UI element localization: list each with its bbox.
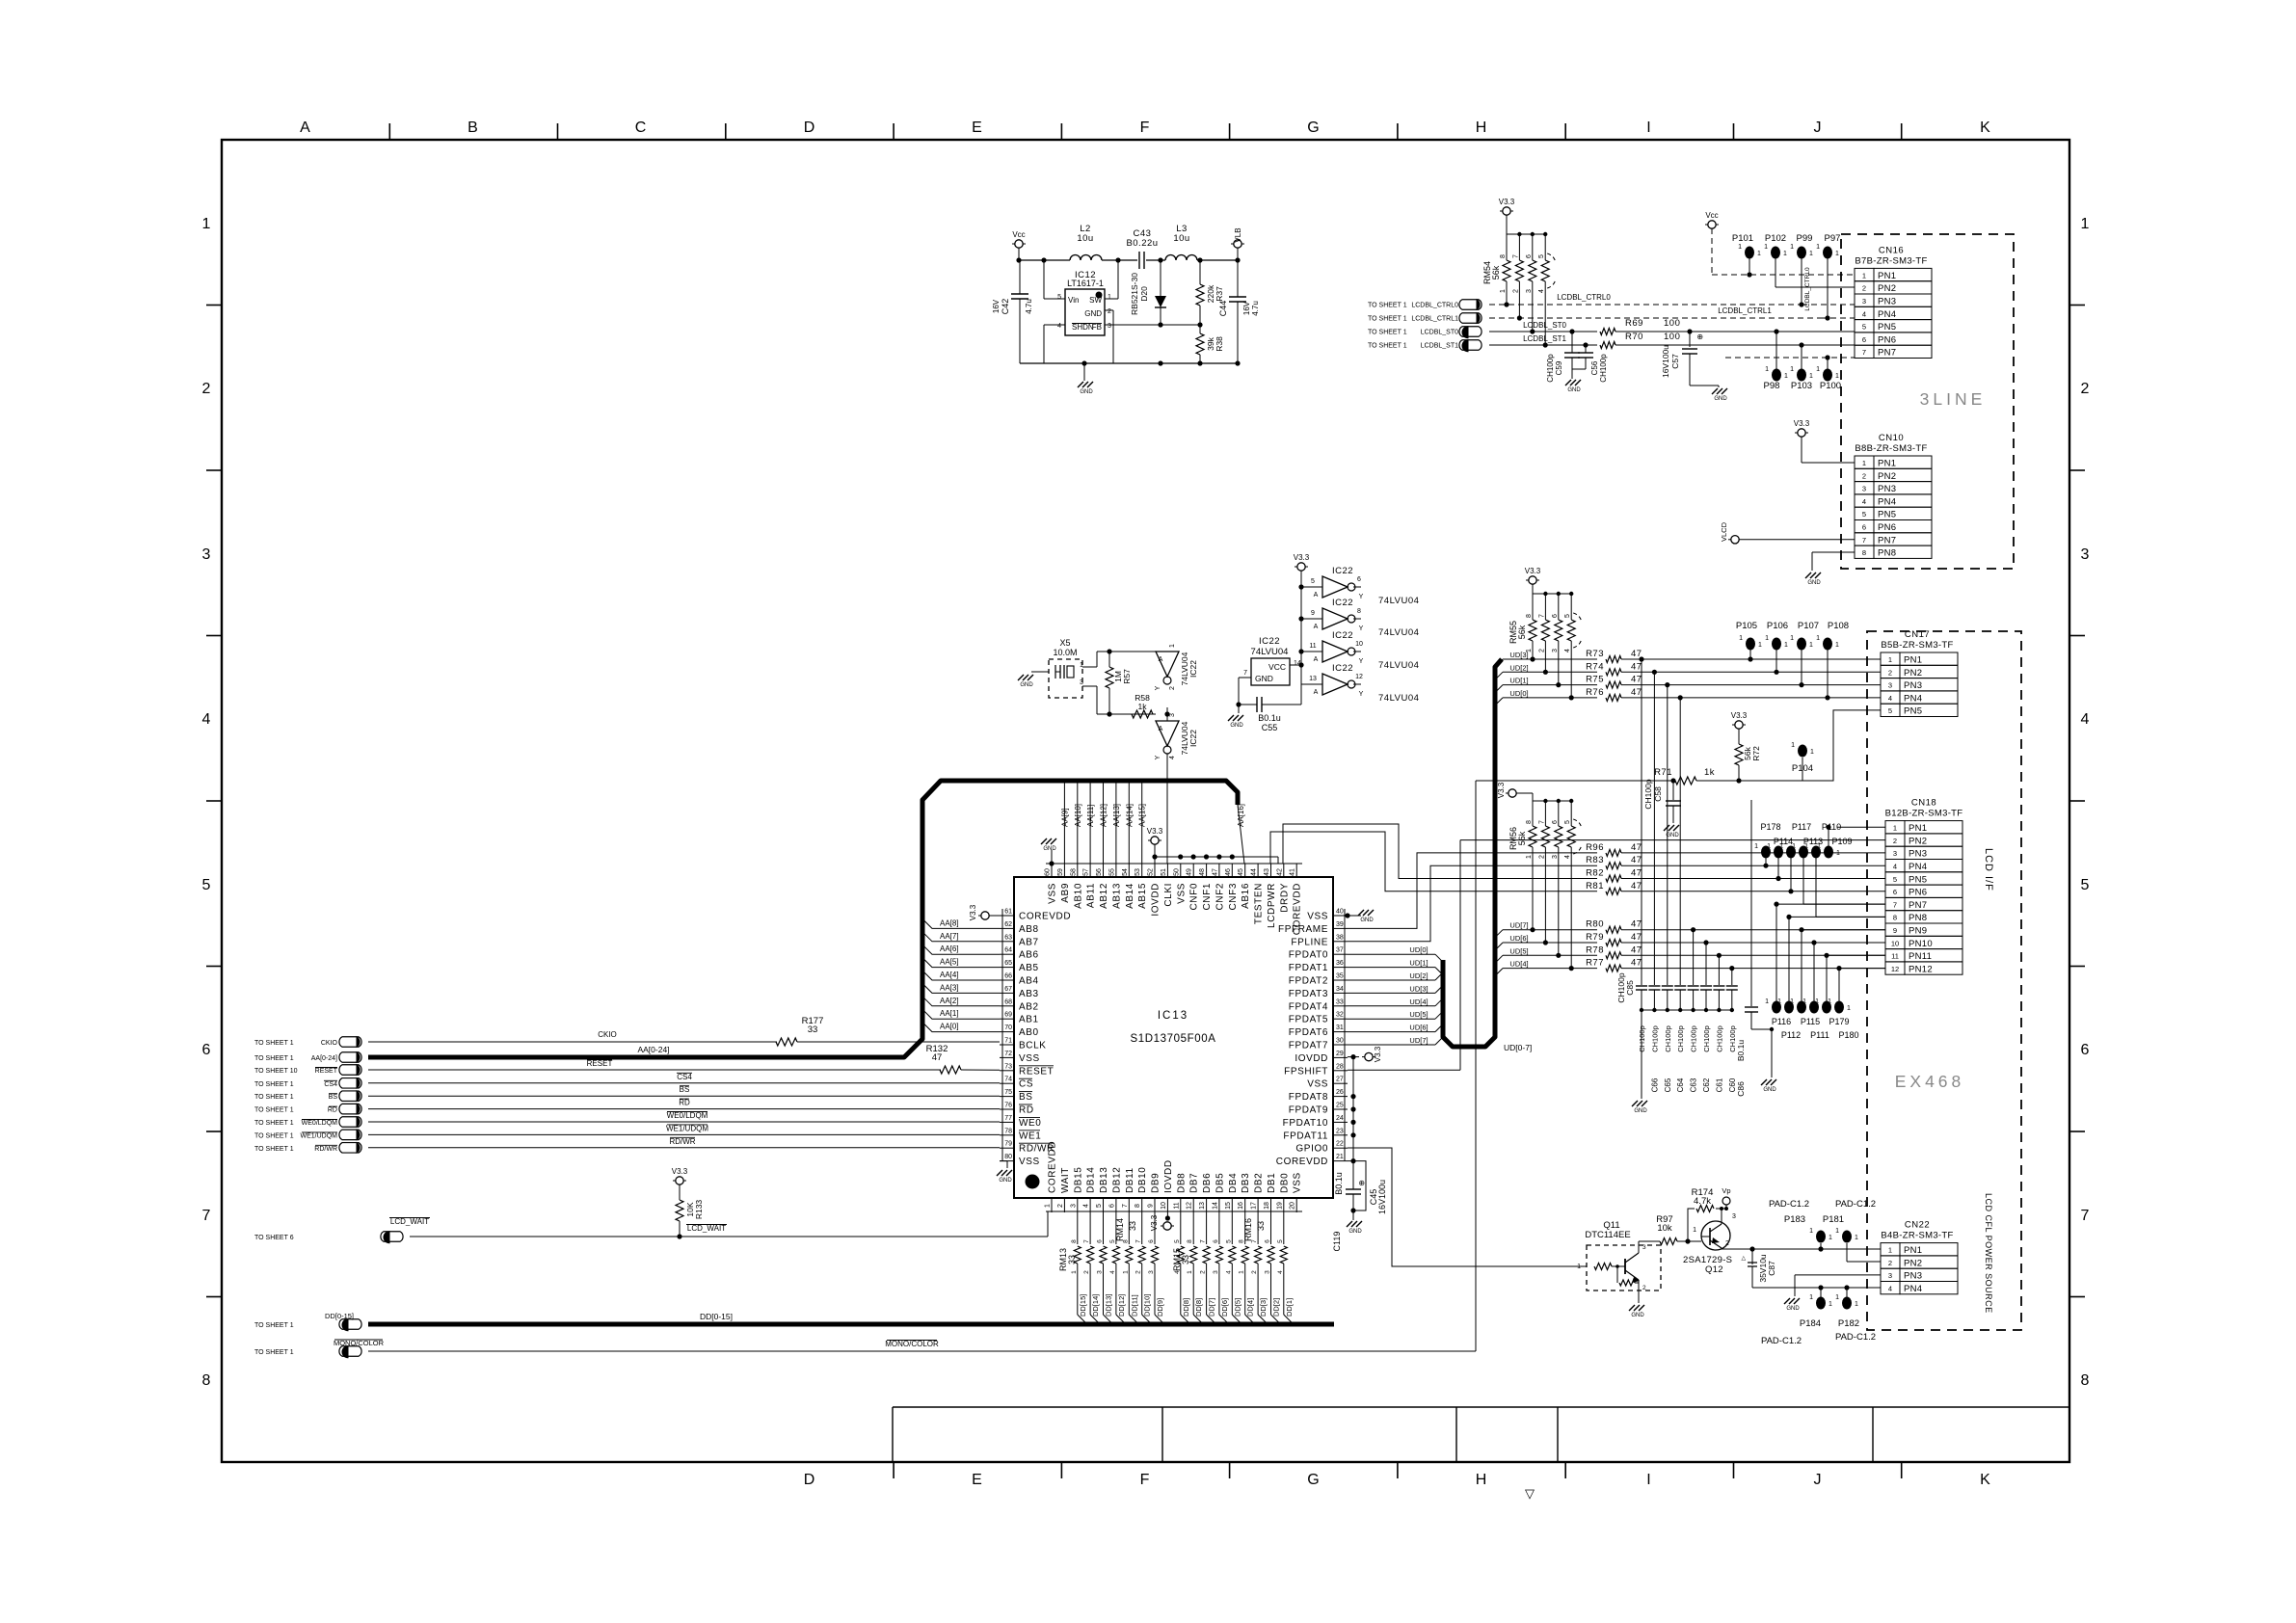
svg-text:Y: Y [1155, 755, 1161, 759]
svg-text:RB521S-30: RB521S-30 [1130, 273, 1139, 315]
svg-text:30: 30 [1336, 1038, 1344, 1045]
svg-text:GND: GND [1084, 309, 1102, 318]
svg-text:2: 2 [1083, 1270, 1090, 1274]
resistor R58 1k [1132, 693, 1153, 718]
svg-text:△: △ [1741, 1256, 1746, 1262]
svg-text:4: 4 [1083, 1204, 1090, 1208]
svg-text:R77: R77 [1586, 958, 1604, 969]
svg-text:V3.3: V3.3 [1794, 419, 1810, 428]
svg-text:1: 1 [1757, 251, 1761, 257]
border frame [222, 140, 2069, 1462]
svg-text:GND: GND [1634, 1108, 1647, 1114]
svg-text:3: 3 [1148, 1270, 1155, 1274]
svg-text:PN4: PN4 [1909, 862, 1927, 872]
svg-text:TO SHEET 1: TO SHEET 1 [254, 1146, 294, 1153]
svg-text:1: 1 [1855, 1235, 1858, 1241]
resistor R174 4.7k [1688, 1187, 1726, 1241]
svg-text:100: 100 [1664, 332, 1680, 342]
svg-text:P111: P111 [1810, 1030, 1829, 1040]
svg-text:4.7u: 4.7u [1251, 301, 1260, 316]
svg-text:CN18: CN18 [1911, 798, 1936, 809]
svg-text:3: 3 [1526, 289, 1533, 293]
svg-text:39: 39 [1336, 921, 1344, 928]
svg-text:LCDBL_ST0: LCDBL_ST0 [1523, 321, 1566, 330]
bus UD taps lower rows [1495, 921, 1597, 976]
svg-text:WE0/LDQM: WE0/LDQM [302, 1120, 338, 1127]
terminal VLB [1231, 227, 1244, 260]
pads P98 P103 P100 [1725, 329, 1855, 391]
svg-text:7: 7 [1200, 1239, 1207, 1243]
svg-text:VSS: VSS [1048, 883, 1058, 904]
svg-text:1: 1 [1835, 642, 1839, 649]
svg-text:1: 1 [1080, 662, 1083, 669]
svg-text:FPDAT8: FPDAT8 [1289, 1092, 1328, 1103]
svg-text:74LVU04: 74LVU04 [1251, 647, 1289, 657]
svg-text:TO SHEET 1: TO SHEET 1 [1368, 343, 1407, 350]
svg-text:A: A [1314, 592, 1319, 599]
svg-text:4.7u: 4.7u [1025, 299, 1033, 314]
svg-text:33: 33 [1128, 1221, 1137, 1231]
svg-text:3: 3 [1642, 1244, 1646, 1251]
svg-text:UD[4]: UD[4] [1509, 960, 1528, 969]
svg-text:5: 5 [1564, 820, 1571, 824]
svg-text:1: 1 [1777, 998, 1781, 1005]
ground C58 [1664, 825, 1680, 838]
svg-text:LCD_WAIT: LCD_WAIT [390, 1217, 429, 1226]
svg-text:GND: GND [1807, 580, 1821, 586]
wire LCDBL_CTRL0 [1489, 293, 1855, 305]
bus UD taps upper rows [1495, 651, 1597, 705]
svg-text:X5: X5 [1059, 638, 1070, 648]
svg-text:6: 6 [1213, 1239, 1219, 1243]
to-sheet flag RESET [254, 1059, 941, 1075]
svg-text:C65: C65 [1664, 1078, 1672, 1092]
svg-text:RM14: RM14 [1115, 1218, 1125, 1241]
svg-text:CNF1: CNF1 [1202, 883, 1213, 911]
svg-text:PN1: PN1 [1878, 271, 1896, 281]
svg-text:AB11: AB11 [1086, 883, 1097, 908]
svg-text:PN2: PN2 [1878, 471, 1896, 482]
svg-text:GPIO0: GPIO0 [1295, 1144, 1328, 1155]
svg-text:DD[12]: DD[12] [1117, 1294, 1126, 1317]
svg-text:CNF3: CNF3 [1228, 883, 1239, 911]
svg-text:54: 54 [1122, 868, 1129, 876]
svg-text:PN3: PN3 [1909, 849, 1927, 860]
svg-text:FB: FB [1092, 323, 1102, 332]
svg-text:1: 1 [1791, 742, 1795, 749]
label LCD I/F [1983, 848, 1994, 891]
svg-text:B7B-ZR-SM3-TF: B7B-ZR-SM3-TF [1855, 255, 1927, 266]
svg-text:DD[6]: DD[6] [1220, 1298, 1229, 1317]
svg-text:R78: R78 [1586, 945, 1604, 955]
svg-text:Vin: Vin [1068, 296, 1079, 305]
svg-text:TO SHEET 1: TO SHEET 1 [254, 1081, 294, 1088]
svg-text:TO SHEET 1: TO SHEET 1 [254, 1107, 294, 1114]
svg-text:IC22: IC22 [1332, 598, 1353, 608]
svg-text:78: 78 [1004, 1128, 1012, 1134]
svg-text:AB4: AB4 [1019, 976, 1039, 987]
svg-text:PN9: PN9 [1909, 926, 1927, 937]
svg-text:6: 6 [1893, 888, 1897, 896]
terminal V3.3 RM55 [1525, 567, 1541, 594]
svg-text:4: 4 [1277, 1270, 1284, 1274]
svg-text:UD[3]: UD[3] [1409, 984, 1428, 993]
svg-text:PN3: PN3 [1878, 484, 1896, 494]
svg-text:DB6: DB6 [1202, 1173, 1213, 1193]
IC22 power box VCC GND [1239, 636, 1301, 705]
svg-text:A: A [1314, 656, 1319, 663]
svg-text:22: 22 [1336, 1141, 1344, 1148]
svg-text:47: 47 [1631, 945, 1642, 955]
svg-text:IOVDD: IOVDD [1163, 1159, 1174, 1193]
inductor L3 [1165, 224, 1197, 260]
svg-text:V3.3: V3.3 [672, 1167, 688, 1176]
svg-text:P110: P110 [1822, 822, 1841, 832]
svg-text:1: 1 [1758, 642, 1762, 649]
svg-text:P181: P181 [1823, 1214, 1844, 1225]
svg-text:UD[2]: UD[2] [1509, 663, 1528, 672]
svg-text:15: 15 [1225, 1202, 1232, 1210]
svg-text:Vcc: Vcc [1012, 230, 1025, 239]
svg-text:1: 1 [1790, 998, 1794, 1005]
svg-text:PAD-C1.2: PAD-C1.2 [1835, 1332, 1876, 1343]
svg-text:UD[7]: UD[7] [1409, 1036, 1428, 1045]
connector CN10 B8B-ZR-SM3-TF [1855, 433, 1932, 559]
svg-text:7: 7 [1122, 1204, 1129, 1208]
svg-text:RESET: RESET [315, 1068, 338, 1075]
svg-text:9: 9 [1148, 1204, 1155, 1208]
svg-text:5: 5 [1888, 706, 1892, 715]
svg-text:1: 1 [1828, 998, 1831, 1005]
svg-text:Vcc: Vcc [1705, 211, 1718, 220]
svg-text:GND: GND [999, 1178, 1012, 1184]
svg-text:47: 47 [1631, 842, 1642, 853]
svg-text:2: 2 [1512, 289, 1519, 293]
svg-text:RM16: RM16 [1243, 1218, 1253, 1241]
svg-text:AB0: AB0 [1019, 1027, 1039, 1038]
svg-text:64: 64 [1004, 947, 1012, 954]
svg-text:FPDAT3: FPDAT3 [1289, 989, 1328, 999]
wire GPIO0 route [1348, 1148, 1587, 1266]
svg-text:PN5: PN5 [1878, 510, 1896, 520]
capacitor C42 [992, 260, 1033, 363]
svg-text:PN5: PN5 [1878, 322, 1896, 333]
svg-text:1: 1 [1187, 1270, 1193, 1274]
svg-text:AA[10]: AA[10] [1074, 804, 1082, 827]
svg-text:A: A [1159, 656, 1163, 663]
svg-text:60: 60 [1045, 868, 1052, 876]
capacitor C43 [1126, 228, 1158, 269]
svg-text:A: A [1159, 726, 1163, 732]
svg-text:CS4: CS4 [324, 1081, 337, 1088]
svg-text:5: 5 [1893, 875, 1897, 884]
svg-text:6: 6 [1097, 1239, 1104, 1243]
svg-text:DD[3]: DD[3] [1259, 1298, 1268, 1317]
svg-text:DD[9]: DD[9] [1156, 1298, 1164, 1317]
svg-text:7: 7 [1538, 614, 1545, 618]
svg-text:P116: P116 [1772, 1017, 1791, 1026]
svg-text:6: 6 [2081, 1042, 2090, 1058]
svg-text:12: 12 [1355, 674, 1363, 680]
bus AA taps to AB pins [922, 918, 1000, 1031]
svg-text:1: 1 [1804, 843, 1808, 850]
to-sheet flag RD/WR [254, 1137, 1000, 1153]
svg-text:P115: P115 [1801, 1017, 1820, 1026]
svg-text:5: 5 [202, 877, 211, 893]
inverter IC22 second [1155, 713, 1198, 864]
svg-text:77: 77 [1004, 1115, 1012, 1122]
svg-text:10: 10 [1355, 641, 1363, 648]
wire LCDBL_ST0 with R69 100 [1489, 318, 1855, 335]
svg-text:16V: 16V [992, 299, 1001, 313]
terminal V3.3 IC22 bank [1294, 553, 1310, 684]
svg-text:P107: P107 [1798, 621, 1819, 631]
svg-text:CN16: CN16 [1879, 245, 1904, 255]
svg-text:1: 1 [1835, 1228, 1839, 1235]
svg-text:5: 5 [1174, 1239, 1181, 1243]
svg-text:8: 8 [202, 1372, 211, 1389]
svg-text:B0.1u: B0.1u [1258, 713, 1281, 723]
label EX468 [1895, 1072, 1965, 1091]
svg-text:R81: R81 [1586, 881, 1604, 891]
svg-text:P101: P101 [1732, 233, 1753, 244]
inverter IC22 first [1155, 644, 1198, 721]
svg-text:CS: CS [1019, 1079, 1033, 1090]
svg-text:33: 33 [1256, 1221, 1266, 1231]
svg-text:25: 25 [1336, 1103, 1344, 1109]
svg-text:47: 47 [1631, 855, 1642, 865]
svg-text:4: 4 [1169, 756, 1176, 759]
svg-text:UD[7]: UD[7] [1509, 921, 1528, 930]
svg-text:8: 8 [1135, 1204, 1141, 1208]
svg-text:1: 1 [1790, 635, 1794, 642]
svg-text:11: 11 [1173, 1202, 1180, 1209]
svg-text:100: 100 [1664, 318, 1680, 329]
ground C119 [1347, 1216, 1363, 1235]
resistor R177 33 [776, 1016, 1000, 1046]
svg-text:C57: C57 [1670, 354, 1680, 369]
svg-text:CS4: CS4 [677, 1073, 692, 1081]
svg-text:COREVDD: COREVDD [1276, 1157, 1328, 1167]
svg-text:AA[0-24]: AA[0-24] [311, 1055, 337, 1062]
svg-text:WE1: WE1 [1019, 1131, 1041, 1141]
svg-text:LCDBL_CTRL0: LCDBL_CTRL0 [1411, 303, 1458, 309]
wire CN18 PN1 [1837, 826, 1885, 828]
IC13 bottom pins 1-20 [1045, 1141, 1303, 1212]
transistor Q12 2SA1729-S [1683, 1207, 1745, 1275]
svg-text:32: 32 [1336, 1012, 1344, 1019]
svg-text:F: F [1140, 120, 1151, 136]
svg-text:56: 56 [1096, 868, 1103, 876]
svg-text:1: 1 [1792, 843, 1796, 850]
svg-text:AA[0-24]: AA[0-24] [637, 1045, 669, 1054]
svg-text:AB6: AB6 [1019, 950, 1039, 961]
svg-text:5: 5 [1862, 323, 1866, 332]
svg-text:3: 3 [1213, 1270, 1219, 1274]
svg-text:GND: GND [1567, 387, 1581, 393]
svg-text:PN8: PN8 [1878, 548, 1896, 559]
capacitor C45 16V100u [1350, 1161, 1387, 1214]
svg-text:1: 1 [1893, 824, 1897, 833]
svg-text:EX468: EX468 [1895, 1072, 1965, 1091]
transistor Q11 DTC114EE [1577, 1220, 1661, 1291]
svg-text:UD[2]: UD[2] [1409, 971, 1428, 980]
svg-text:FPDAT5: FPDAT5 [1289, 1015, 1328, 1025]
capacitor C58 CH100p [1643, 778, 1681, 823]
capacitor C87 35V10u [1741, 1249, 1776, 1288]
svg-text:8: 8 [1526, 614, 1533, 618]
svg-text:RD/WR: RD/WR [314, 1146, 337, 1153]
pad P104 [1791, 742, 1814, 781]
svg-text:5: 5 [1096, 1204, 1103, 1208]
svg-text:47: 47 [932, 1052, 943, 1063]
svg-text:DD[11]: DD[11] [1130, 1294, 1138, 1317]
svg-text:2: 2 [1862, 471, 1866, 480]
svg-text:R57: R57 [1122, 669, 1132, 684]
svg-text:V3.3: V3.3 [1731, 711, 1748, 720]
svg-text:VLCD: VLCD [1720, 521, 1728, 542]
resistor network RM54 56k [1482, 232, 1555, 348]
svg-text:43: 43 [1264, 868, 1270, 876]
terminal V3.3 CN10 [1794, 419, 1855, 463]
svg-text:7: 7 [1135, 1239, 1142, 1243]
svg-text:VSS: VSS [1019, 1053, 1040, 1064]
svg-text:1: 1 [1693, 1227, 1696, 1234]
svg-text:B4B-ZR-SM3-TF: B4B-ZR-SM3-TF [1881, 1231, 1953, 1241]
svg-text:4: 4 [1538, 289, 1545, 293]
to-sheet flag DD[0-15] [254, 1312, 733, 1331]
wire DRDY route [1283, 824, 1597, 879]
svg-text:AB5: AB5 [1019, 963, 1039, 973]
svg-text:3: 3 [1169, 713, 1176, 717]
svg-text:46: 46 [1225, 868, 1232, 876]
svg-text:FPDAT7: FPDAT7 [1289, 1041, 1328, 1051]
svg-text:RD: RD [1019, 1105, 1034, 1116]
wire IOVDD rail down [1350, 1057, 1355, 1161]
svg-text:PN6: PN6 [1878, 334, 1896, 345]
bus UD[0-7] thick [1443, 659, 1532, 1052]
svg-text:6: 6 [1526, 254, 1533, 258]
svg-text:UD[1]: UD[1] [1509, 677, 1528, 685]
svg-text:CH100p: CH100p [1676, 1025, 1685, 1052]
svg-text:VSS: VSS [1307, 912, 1328, 922]
svg-text:AA[1]: AA[1] [940, 1009, 959, 1018]
svg-text:1: 1 [1108, 294, 1111, 301]
to-sheet flag WE0/LDQM [254, 1111, 1000, 1127]
svg-text:DRDY: DRDY [1279, 883, 1290, 913]
svg-text:C59: C59 [1555, 360, 1563, 375]
svg-text:PAD-C1.2: PAD-C1.2 [1769, 1199, 1809, 1210]
svg-text:1: 1 [202, 216, 211, 232]
svg-text:VSS: VSS [1293, 1172, 1303, 1193]
svg-text:GND: GND [1631, 1313, 1644, 1318]
svg-text:3: 3 [1888, 1271, 1892, 1280]
svg-text:47: 47 [1631, 868, 1642, 879]
svg-text:2: 2 [1893, 837, 1897, 845]
svg-text:51: 51 [1161, 868, 1167, 876]
svg-text:AB1: AB1 [1019, 1015, 1039, 1025]
svg-text:45: 45 [1238, 868, 1244, 876]
svg-text:GND: GND [1348, 1229, 1362, 1235]
wire Q12 output [1745, 1246, 1881, 1251]
svg-text:CNF0: CNF0 [1189, 883, 1200, 911]
svg-text:47: 47 [1212, 868, 1218, 876]
svg-text:8: 8 [1187, 1239, 1193, 1243]
svg-text:P112: P112 [1781, 1030, 1801, 1040]
svg-text:PN10: PN10 [1909, 939, 1933, 949]
svg-text:GND: GND [1666, 833, 1679, 838]
svg-text:1: 1 [1765, 366, 1769, 373]
resistors R73 R74 R75 R76 47 [1586, 649, 1881, 701]
svg-text:4: 4 [1862, 497, 1866, 506]
capacitors CH100p row C85 C60-C66 [1616, 656, 1738, 1099]
svg-text:DB3: DB3 [1241, 1173, 1251, 1193]
svg-text:36: 36 [1336, 960, 1344, 967]
svg-text:R96: R96 [1586, 842, 1604, 853]
svg-text:RESET: RESET [1019, 1066, 1054, 1077]
svg-text:1k: 1k [1704, 767, 1715, 778]
ground X5 [1018, 672, 1049, 688]
svg-text:DB4: DB4 [1228, 1173, 1239, 1193]
svg-text:6: 6 [1552, 820, 1559, 824]
svg-text:UD[5]: UD[5] [1409, 1010, 1428, 1019]
svg-text:1: 1 [1500, 289, 1507, 293]
svg-text:19: 19 [1276, 1202, 1283, 1210]
svg-text:5: 5 [1057, 294, 1061, 301]
svg-text:CH100p: CH100p [1715, 1025, 1723, 1052]
svg-text:10: 10 [1891, 939, 1899, 947]
inverter IC22 74LVU04 pins 11/10 [1301, 630, 1419, 671]
svg-text:C61: C61 [1715, 1078, 1723, 1092]
svg-text:Y: Y [1359, 594, 1364, 600]
svg-text:1: 1 [1526, 855, 1533, 859]
svg-text:TO SHEET 1: TO SHEET 1 [254, 1120, 294, 1127]
svg-text:Y: Y [1359, 691, 1364, 698]
svg-text:CH100p: CH100p [1690, 1025, 1698, 1052]
svg-text:FPDAT9: FPDAT9 [1289, 1105, 1328, 1116]
svg-text:23: 23 [1336, 1128, 1344, 1134]
svg-text:2: 2 [1642, 1285, 1646, 1291]
svg-text:4: 4 [1057, 323, 1061, 330]
terminal V3.3 COREVDD61 [969, 904, 1000, 920]
svg-text:LCD_WAIT: LCD_WAIT [687, 1224, 726, 1233]
svg-text:10: 10 [1161, 1202, 1167, 1210]
svg-text:⊕: ⊕ [1696, 333, 1703, 341]
wires CN18 PN7-PN12 from pads [1774, 902, 1885, 1002]
svg-text:WE1/UDQM: WE1/UDQM [666, 1124, 708, 1132]
ground C57 [1712, 386, 1728, 402]
svg-text:70: 70 [1004, 1024, 1012, 1031]
svg-text:G: G [1307, 1472, 1320, 1488]
svg-text:65: 65 [1004, 960, 1012, 967]
svg-text:24: 24 [1336, 1115, 1344, 1122]
svg-text:B0.1u: B0.1u [1334, 1172, 1344, 1195]
svg-text:C87: C87 [1767, 1261, 1776, 1276]
svg-text:PN4: PN4 [1878, 496, 1896, 507]
svg-text:16V100u: 16V100u [1377, 1180, 1387, 1214]
svg-text:DB2: DB2 [1254, 1173, 1265, 1193]
svg-text:8: 8 [1071, 1239, 1078, 1243]
svg-text:74LVU04: 74LVU04 [1378, 627, 1419, 638]
svg-text:7: 7 [1862, 536, 1866, 545]
svg-text:VSS: VSS [1176, 883, 1187, 904]
svg-text:GND: GND [1080, 389, 1093, 395]
svg-text:K: K [1980, 120, 1991, 136]
svg-text:LCDBL_CTRL0: LCDBL_CTRL0 [1804, 267, 1811, 311]
wire LCDBL_ST1 with R70 100 [1489, 332, 1855, 349]
capacitor C59 CH100p [1546, 329, 1580, 382]
svg-text:PN1: PN1 [1904, 1245, 1922, 1256]
